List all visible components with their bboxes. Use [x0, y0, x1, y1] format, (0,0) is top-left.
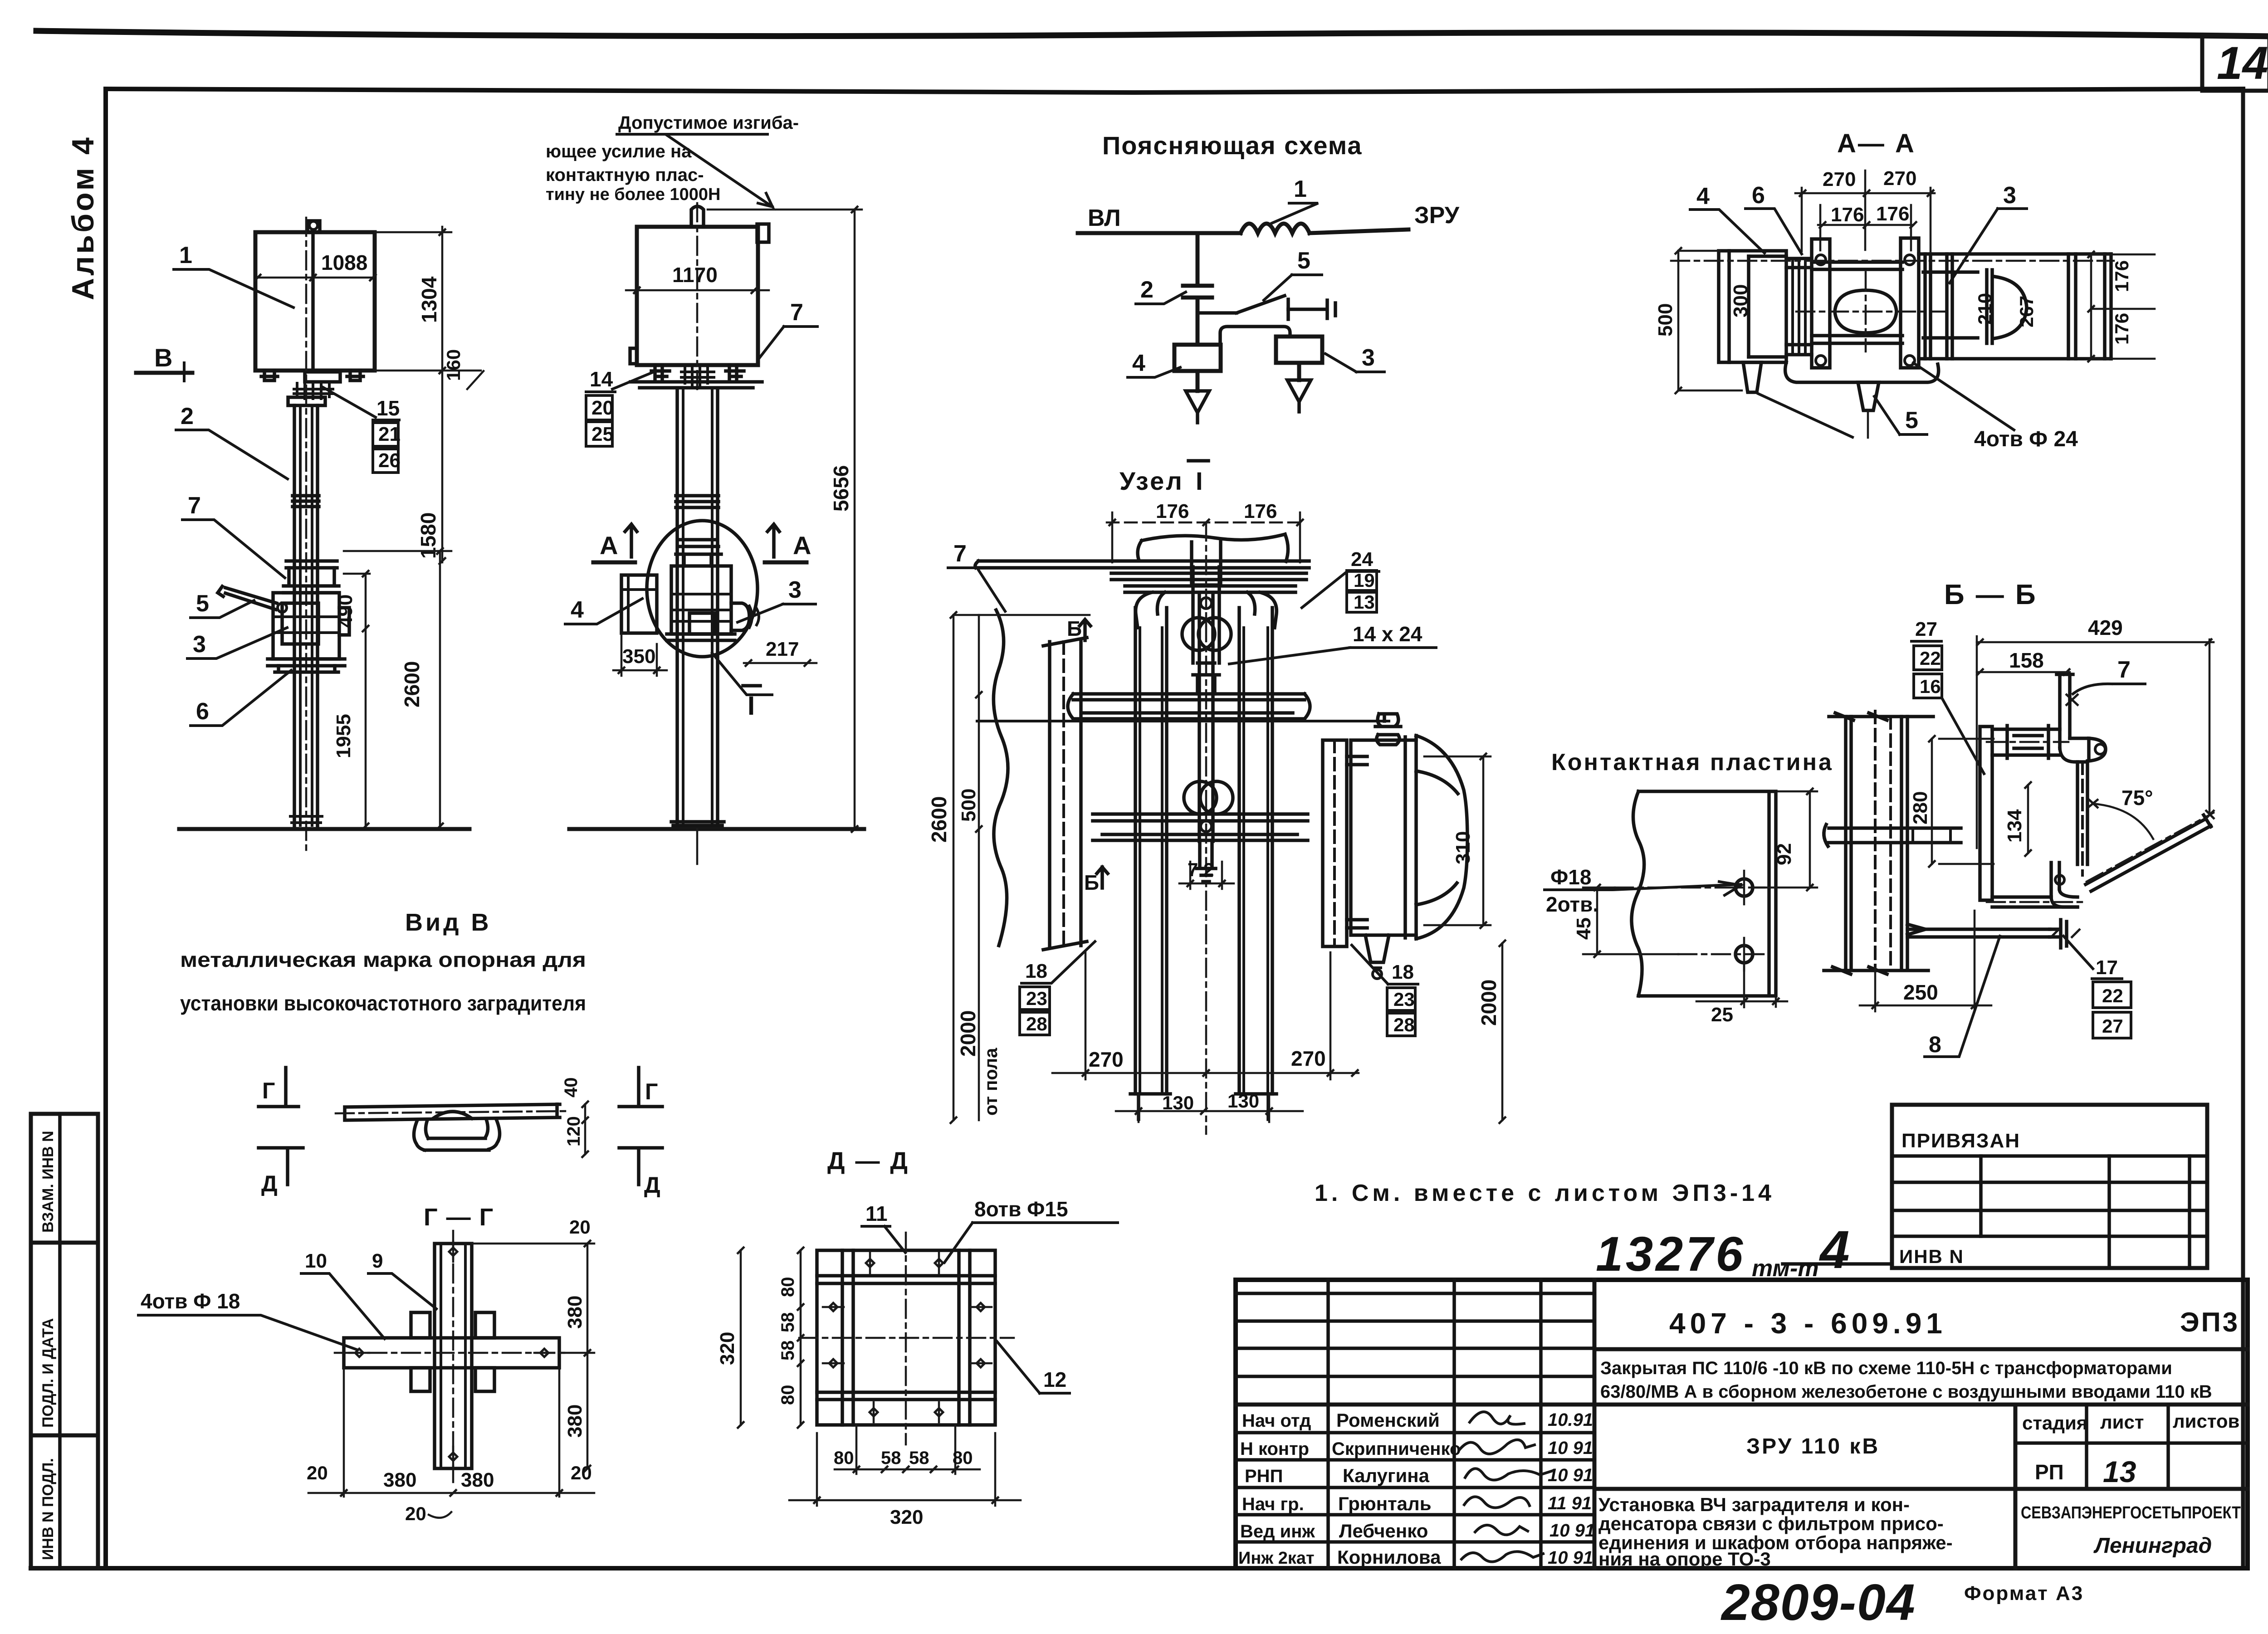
- svg-text:Формат А3: Формат А3: [1964, 1582, 2084, 1605]
- svg-text:3: 3: [193, 631, 206, 658]
- svg-text:Закрытая ПС 110/6 -10 кВ по с: Закрытая ПС 110/6 -10 кВ по схеме 110-5Н…: [1600, 1358, 2172, 1378]
- svg-text:270: 270: [1291, 1047, 1326, 1070]
- svg-text:7: 7: [188, 493, 201, 519]
- svg-text:310: 310: [1452, 831, 1474, 864]
- svg-text:130: 130: [1162, 1092, 1194, 1113]
- svg-text:денсатора связи с фильтром при: денсатора связи с фильтром присо-: [1598, 1513, 1944, 1534]
- svg-text:270: 270: [1823, 168, 1856, 190]
- svg-text:9: 9: [372, 1250, 383, 1272]
- svg-text:Д: Д: [261, 1171, 278, 1196]
- svg-text:270: 270: [1883, 167, 1916, 190]
- svg-text:80: 80: [834, 1448, 854, 1468]
- svg-text:58: 58: [909, 1448, 929, 1468]
- svg-text:Г — Г: Г — Г: [424, 1204, 494, 1231]
- svg-text:тину не более 1000Н: тину не более 1000Н: [546, 185, 720, 204]
- svg-text:5: 5: [1297, 248, 1310, 274]
- svg-text:ПРИВЯЗАН: ПРИВЯЗАН: [1901, 1130, 2020, 1152]
- svg-text:4: 4: [1132, 350, 1145, 376]
- svg-text:4: 4: [1696, 183, 1710, 210]
- svg-text:500: 500: [1654, 303, 1677, 337]
- svg-text:от пола: от пола: [981, 1048, 1001, 1116]
- svg-text:Установка ВЧ заградителя и кон: Установка ВЧ заградителя и кон-: [1598, 1494, 1910, 1515]
- svg-text:8: 8: [1929, 1032, 1941, 1057]
- svg-text:5656: 5656: [829, 465, 853, 512]
- svg-text:4отв Ф 18: 4отв Ф 18: [141, 1289, 240, 1313]
- svg-text:металлическая марка опорна: металлическая марка опорная для: [180, 948, 586, 971]
- svg-text:1088: 1088: [321, 251, 367, 274]
- svg-text:320: 320: [890, 1506, 923, 1528]
- svg-text:листов: листов: [2173, 1410, 2239, 1432]
- svg-text:40: 40: [561, 1078, 581, 1098]
- svg-text:18: 18: [1392, 961, 1414, 983]
- svg-text:Корнилова: Корнилова: [1337, 1546, 1441, 1568]
- svg-text:380: 380: [461, 1469, 494, 1491]
- svg-text:Инж 2кат: Инж 2кат: [1238, 1549, 1315, 1568]
- svg-text:10 91: 10 91: [1548, 1465, 1593, 1485]
- svg-text:7 2: 7 2: [1188, 859, 1214, 880]
- svg-text:14: 14: [2217, 37, 2268, 89]
- svg-text:6: 6: [1752, 182, 1765, 209]
- svg-text:58: 58: [881, 1448, 901, 1468]
- svg-text:500: 500: [958, 789, 980, 822]
- svg-text:2: 2: [181, 403, 194, 429]
- svg-text:280: 280: [1909, 791, 1931, 824]
- svg-text:350: 350: [622, 645, 655, 668]
- svg-text:4: 4: [1819, 1220, 1850, 1280]
- svg-text:1: 1: [179, 242, 192, 268]
- svg-text:Контактная пластина: Контактная пластина: [1551, 749, 1833, 776]
- svg-text:80: 80: [778, 1277, 798, 1297]
- svg-text:10.91: 10.91: [1548, 1410, 1593, 1430]
- svg-text:320: 320: [716, 1332, 738, 1365]
- svg-text:Альбом 4: Альбом 4: [66, 135, 100, 300]
- svg-text:Роменский: Роменский: [1336, 1410, 1440, 1431]
- svg-text:210: 210: [1974, 293, 1995, 325]
- svg-text:10 91: 10 91: [1549, 1521, 1595, 1541]
- svg-text:1170: 1170: [672, 263, 718, 287]
- svg-text:92: 92: [1773, 843, 1795, 865]
- svg-text:11: 11: [865, 1202, 888, 1225]
- svg-text:267: 267: [2016, 296, 2037, 327]
- svg-text:ИНВ N ПОДЛ.: ИНВ N ПОДЛ.: [39, 1458, 57, 1560]
- svg-text:7: 7: [953, 541, 967, 567]
- svg-text:ЗРУ: ЗРУ: [1414, 202, 1460, 229]
- svg-text:установки высокочастотного з: установки высокочастотного заградителя: [180, 991, 586, 1015]
- svg-text:Лебченко: Лебченко: [1339, 1520, 1428, 1541]
- svg-text:13: 13: [1354, 591, 1375, 613]
- svg-text:20: 20: [569, 1216, 591, 1238]
- svg-text:2отв.: 2отв.: [1546, 893, 1598, 916]
- svg-text:2000: 2000: [1477, 980, 1501, 1026]
- svg-text:14: 14: [590, 367, 613, 391]
- svg-text:Калугина: Калугина: [1343, 1465, 1430, 1486]
- svg-text:Нач гр.: Нач гр.: [1242, 1494, 1304, 1514]
- svg-text:7: 7: [790, 299, 803, 326]
- svg-text:17: 17: [2096, 956, 2118, 979]
- svg-text:1. См. вместе с листом ЭП3-14: 1. См. вместе с листом ЭП3-14: [1315, 1180, 1775, 1206]
- svg-text:176: 176: [1876, 203, 1909, 225]
- svg-text:16: 16: [1920, 676, 1941, 697]
- svg-text:РП: РП: [2035, 1460, 2064, 1484]
- svg-text:ИНВ N: ИНВ N: [1899, 1246, 1964, 1267]
- svg-text:270: 270: [1089, 1048, 1124, 1071]
- svg-text:20: 20: [571, 1462, 592, 1483]
- svg-text:407 - 3 - 609.91: 407 - 3 - 609.91: [1669, 1307, 1947, 1340]
- svg-text:Ленинград: Ленинград: [2093, 1534, 2212, 1558]
- svg-text:Нач отд: Нач отд: [1242, 1411, 1311, 1431]
- svg-text:2000: 2000: [956, 1010, 980, 1057]
- svg-text:Ф18: Ф18: [1550, 865, 1591, 889]
- svg-text:490: 490: [334, 595, 357, 628]
- svg-text:В: В: [154, 343, 172, 372]
- svg-text:4отв Ф 24: 4отв Ф 24: [1974, 427, 2078, 451]
- svg-text:176: 176: [1831, 204, 1864, 226]
- svg-text:26: 26: [378, 449, 401, 472]
- svg-text:10 91: 10 91: [1548, 1438, 1593, 1458]
- svg-text:стадия: стадия: [2022, 1412, 2087, 1434]
- svg-text:176: 176: [1244, 500, 1277, 522]
- svg-text:14 х 24: 14 х 24: [1353, 622, 1422, 646]
- svg-text:Скрипниченко: Скрипниченко: [1332, 1439, 1461, 1459]
- svg-text:176: 176: [1156, 500, 1189, 522]
- svg-text:I: I: [748, 691, 755, 721]
- svg-text:2: 2: [1140, 277, 1154, 303]
- svg-text:ВЗАМ. ИНВ N: ВЗАМ. ИНВ N: [39, 1131, 57, 1233]
- svg-text:20: 20: [405, 1503, 426, 1524]
- svg-text:2809-04: 2809-04: [1721, 1574, 1916, 1631]
- svg-text:27: 27: [1915, 618, 1937, 640]
- svg-text:25: 25: [1711, 1004, 1733, 1026]
- svg-text:4: 4: [571, 597, 584, 623]
- svg-text:5: 5: [196, 590, 209, 617]
- svg-text:ния на опоре ТО-3: ния на опоре ТО-3: [1598, 1548, 1771, 1570]
- svg-text:6: 6: [196, 698, 209, 725]
- svg-text:380: 380: [383, 1469, 416, 1491]
- svg-text:ЭП3: ЭП3: [2180, 1307, 2239, 1337]
- svg-text:176: 176: [2111, 260, 2132, 292]
- svg-text:Д: Д: [644, 1172, 660, 1198]
- svg-text:2600: 2600: [927, 796, 951, 843]
- svg-text:22: 22: [2102, 985, 2123, 1006]
- svg-text:А— А: А— А: [1837, 129, 1916, 158]
- svg-text:24: 24: [1351, 548, 1373, 571]
- svg-text:250: 250: [1903, 980, 1938, 1004]
- svg-text:45: 45: [1573, 917, 1595, 940]
- svg-text:15: 15: [376, 396, 400, 420]
- svg-text:158: 158: [2009, 649, 2044, 672]
- svg-text:1: 1: [1294, 176, 1307, 202]
- svg-text:27: 27: [2102, 1015, 2123, 1037]
- svg-text:300: 300: [1730, 284, 1752, 317]
- svg-text:Н контр: Н контр: [1240, 1439, 1309, 1459]
- svg-text:160: 160: [443, 349, 464, 381]
- svg-text:58: 58: [778, 1312, 798, 1333]
- svg-text:22: 22: [1920, 648, 1941, 669]
- svg-text:13276: 13276: [1596, 1226, 1745, 1281]
- svg-text:176: 176: [2111, 313, 2132, 345]
- svg-text:ВЛ: ВЛ: [1088, 205, 1121, 231]
- svg-text:Вид В: Вид В: [405, 909, 491, 936]
- svg-text:А: А: [793, 531, 811, 560]
- svg-text:8отв Ф15: 8отв Ф15: [974, 1197, 1068, 1221]
- svg-text:25: 25: [591, 423, 614, 445]
- svg-text:20: 20: [591, 397, 614, 419]
- svg-text:Д — Д: Д — Д: [827, 1147, 909, 1175]
- svg-text:130: 130: [1227, 1090, 1259, 1112]
- svg-text:Поясняющая схема: Поясняющая схема: [1102, 131, 1363, 160]
- svg-text:лист: лист: [2100, 1411, 2144, 1433]
- svg-text:7: 7: [2117, 657, 2131, 683]
- svg-text:контактную плас-: контактную плас-: [546, 165, 704, 185]
- svg-text:21: 21: [378, 423, 401, 445]
- svg-text:РНП: РНП: [1245, 1466, 1283, 1486]
- svg-text:СЕВЗАПЭНЕРГОСЕТЬПРОЕКТ: СЕВЗАПЭНЕРГОСЕТЬПРОЕКТ: [2021, 1503, 2241, 1522]
- svg-text:ЗРУ 110 кВ: ЗРУ 110 кВ: [1746, 1434, 1880, 1458]
- svg-text:58: 58: [778, 1341, 798, 1361]
- svg-text:28: 28: [1393, 1014, 1415, 1035]
- svg-text:1955: 1955: [332, 714, 355, 758]
- svg-text:23: 23: [1026, 988, 1047, 1009]
- svg-text:23: 23: [1393, 989, 1415, 1010]
- svg-text:Допустимое изгиба-: Допустимое изгиба-: [618, 113, 799, 133]
- svg-text:5: 5: [1905, 407, 1918, 434]
- svg-text:тм-т: тм-т: [1752, 1255, 1819, 1282]
- svg-text:А: А: [600, 531, 618, 560]
- svg-text:ПОДЛ. И ДАТА: ПОДЛ. И ДАТА: [39, 1318, 57, 1428]
- svg-text:120: 120: [564, 1116, 584, 1146]
- svg-text:11 91: 11 91: [1548, 1493, 1592, 1513]
- svg-text:12: 12: [1043, 1368, 1066, 1391]
- svg-text:63/80/МВ А в сборном железобет: 63/80/МВ А в сборном железобетоне с возд…: [1600, 1382, 2212, 1402]
- svg-text:10: 10: [305, 1250, 327, 1272]
- svg-text:2600: 2600: [400, 661, 424, 707]
- svg-text:80: 80: [778, 1385, 798, 1405]
- svg-text:429: 429: [2088, 616, 2123, 639]
- svg-text:134: 134: [2004, 809, 2026, 843]
- svg-text:Вед инж: Вед инж: [1240, 1522, 1315, 1541]
- svg-text:Б — Б: Б — Б: [1944, 579, 2038, 610]
- svg-text:13: 13: [2103, 1455, 2136, 1488]
- svg-text:20: 20: [307, 1462, 328, 1483]
- svg-text:19: 19: [1354, 570, 1375, 591]
- svg-text:28: 28: [1026, 1013, 1047, 1034]
- svg-text:380: 380: [564, 1296, 586, 1329]
- svg-text:Б: Б: [1067, 617, 1082, 640]
- svg-text:3: 3: [2003, 182, 2016, 209]
- svg-text:Г: Г: [262, 1078, 275, 1103]
- svg-text:ющее усилие на: ющее усилие на: [546, 141, 692, 161]
- svg-text:18: 18: [1025, 960, 1047, 982]
- svg-text:380: 380: [564, 1405, 586, 1438]
- svg-text:3: 3: [1362, 345, 1375, 371]
- svg-text:Грюнталь: Грюнталь: [1338, 1493, 1432, 1514]
- svg-text:80: 80: [953, 1448, 973, 1468]
- svg-text:217: 217: [766, 638, 799, 660]
- svg-text:1304: 1304: [417, 276, 441, 323]
- svg-text:10 91: 10 91: [1548, 1548, 1593, 1568]
- svg-text:Г: Г: [645, 1079, 658, 1104]
- svg-text:Узел: Узел: [1119, 467, 1184, 495]
- svg-text:I: I: [1196, 467, 1203, 495]
- svg-text:3: 3: [788, 577, 802, 603]
- svg-text:75°: 75°: [2121, 786, 2153, 810]
